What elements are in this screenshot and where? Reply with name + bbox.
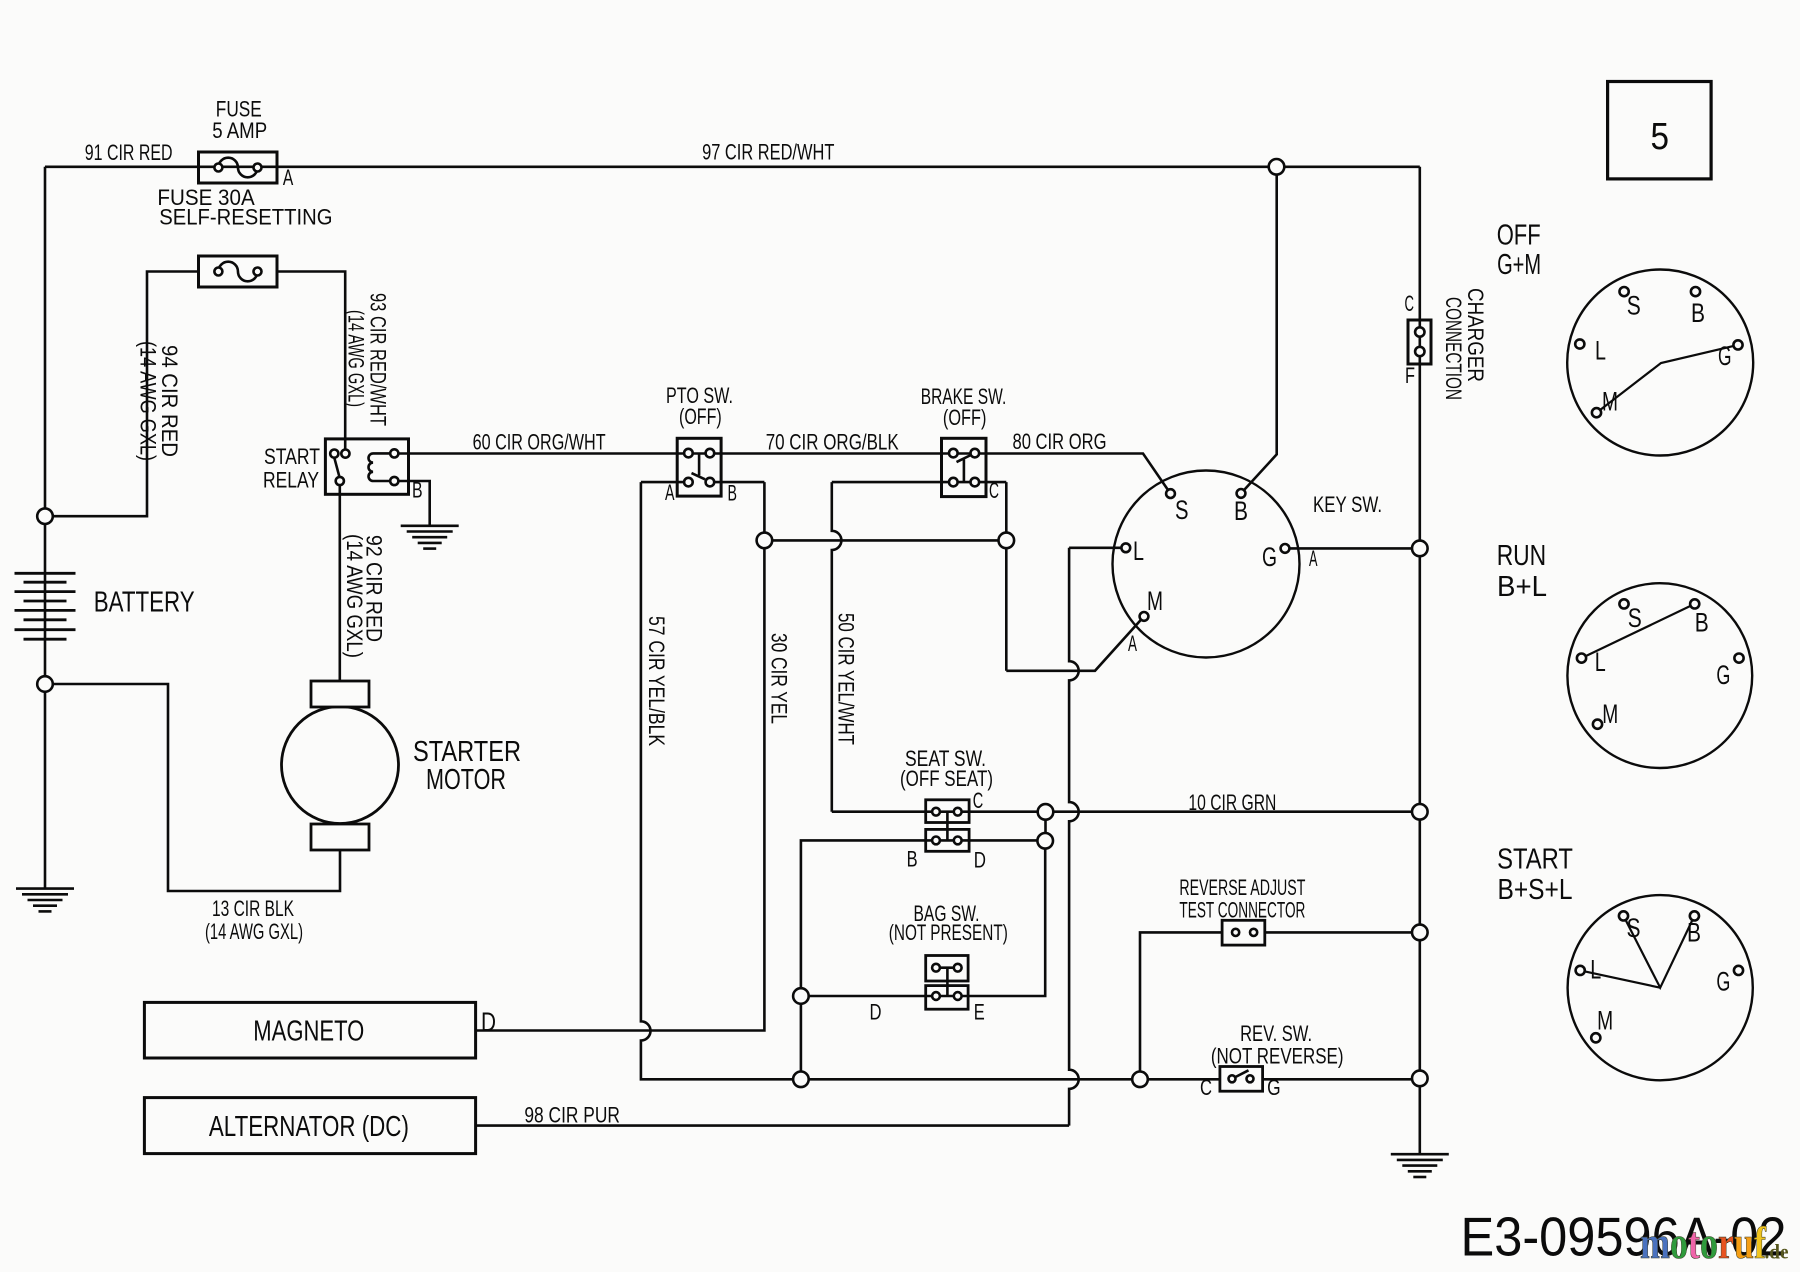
svg-text:L: L — [1133, 536, 1144, 566]
wire 50 CIR YEL/WHT with hop — [832, 482, 842, 812]
label BRAKE SW. (OFF) — [921, 384, 1007, 430]
label FUSE 5 AMP — [212, 97, 267, 143]
svg-text:30 CIR YEL: 30 CIR YEL — [767, 633, 792, 724]
label PTO A — [665, 480, 675, 505]
svg-text:C: C — [1200, 1075, 1212, 1100]
svg-text:G: G — [1716, 660, 1730, 690]
label ALTERNATOR (DC) — [209, 1111, 409, 1143]
node top rail to key B — [1269, 159, 1285, 175]
label START RELAY — [263, 444, 320, 493]
label 92 CIR RED (14 AWG GXL) — [342, 534, 387, 658]
label BATTERY — [94, 587, 195, 619]
node key G riser junction — [1412, 541, 1428, 557]
svg-text:C: C — [989, 478, 999, 503]
svg-text:MAGNETO: MAGNETO — [253, 1016, 364, 1048]
label KEY SW. — [1313, 492, 1382, 517]
label 98 CIR PUR — [524, 1103, 620, 1128]
start relay — [325, 439, 408, 494]
svg-text:B: B — [907, 846, 918, 871]
svg-text:S: S — [1628, 603, 1642, 633]
svg-text:ALTERNATOR (DC): ALTERNATOR (DC) — [209, 1111, 409, 1143]
brake switch — [942, 438, 987, 496]
svg-text:E: E — [974, 1000, 985, 1025]
label 57 CIR YEL/BLK — [644, 616, 669, 746]
label STARTER MOTOR — [413, 736, 521, 796]
label key A (G) — [1309, 546, 1318, 571]
svg-text:C: C — [973, 788, 984, 813]
wire reverse adjust connector right lead — [1265, 931, 1420, 934]
wire seat switch C lead — [832, 810, 1420, 813]
label seat C — [973, 788, 984, 813]
svg-text:91 CIR RED: 91 CIR RED — [85, 140, 173, 165]
svg-text:M: M — [1602, 699, 1618, 729]
svg-text:M: M — [1597, 1006, 1613, 1036]
label key A (M) — [1128, 631, 1137, 656]
svg-text:D: D — [481, 1007, 496, 1037]
svg-text:(NOT REVERSE): (NOT REVERSE) — [1211, 1044, 1344, 1069]
wire rev switch right lead — [1263, 1078, 1420, 1081]
label charger F — [1405, 363, 1415, 388]
node battery negative — [37, 676, 53, 692]
svg-text:A: A — [1309, 546, 1318, 571]
reverse adjust test connector — [1222, 920, 1265, 945]
label RUN B+L — [1497, 540, 1547, 603]
svg-text:G+M: G+M — [1497, 249, 1541, 281]
label 60 CIR ORG/WHT — [473, 429, 606, 454]
svg-text:RELAY: RELAY — [263, 468, 319, 493]
svg-text:A: A — [665, 480, 675, 505]
rev switch — [1220, 1067, 1263, 1092]
svg-text:60 CIR ORG/WHT: 60 CIR ORG/WHT — [473, 429, 606, 454]
svg-text:57 CIR YEL/BLK: 57 CIR YEL/BLK — [644, 616, 669, 746]
svg-text:B: B — [1691, 298, 1705, 328]
node brake C junction — [999, 533, 1015, 549]
seat switch — [926, 800, 969, 852]
magneto — [144, 1002, 475, 1058]
svg-text:B: B — [412, 478, 423, 503]
node seat D junction — [1037, 833, 1053, 849]
wire 30 CIR YEL cross-link — [764, 539, 1006, 542]
svg-text:D: D — [870, 1000, 882, 1025]
key position diagram RUN — [1567, 583, 1752, 768]
wire seat switch B lead — [801, 840, 936, 1079]
wire PTO B lead — [710, 481, 765, 484]
label magneto D terminal — [481, 1007, 496, 1037]
svg-text:.de: .de — [1765, 1240, 1789, 1264]
label key S — [1175, 495, 1189, 525]
svg-text:F: F — [1405, 363, 1415, 388]
label 30 CIR YEL — [767, 633, 792, 724]
svg-text:SELF-RESETTING: SELF-RESETTING — [159, 205, 332, 230]
label CHARGER CONNECTION — [1441, 288, 1488, 400]
label E3-09596A-02 — [1461, 1206, 1787, 1268]
wire key switch M lead — [1006, 616, 1144, 670]
wire 91 CIR RED / 97 CIR RED/WHT top rail — [45, 166, 1420, 169]
wire seat switch D lead — [958, 839, 1045, 842]
battery — [15, 573, 76, 639]
svg-text:REV. SW.: REV. SW. — [1240, 1021, 1312, 1046]
wire brake C drop — [1005, 482, 1008, 671]
svg-text:G: G — [1718, 341, 1732, 371]
label brake C terminal — [989, 478, 999, 503]
svg-text:A: A — [283, 165, 294, 190]
wire key switch L lead — [1069, 546, 1126, 549]
svg-text:B: B — [1695, 608, 1709, 638]
label 93 CIR RED/WHT (14 AWG GXL) — [344, 293, 391, 426]
label key M — [1147, 586, 1163, 616]
node rev wire left junction — [793, 1072, 809, 1088]
label 13 CIR BLK (14 AWG GXL) — [205, 896, 303, 944]
wire key switch G to riser — [1285, 547, 1420, 550]
svg-text:L: L — [1595, 336, 1606, 366]
wire PTO A lead — [641, 481, 689, 484]
fuse 5 AMP — [199, 152, 278, 183]
label charger C — [1405, 291, 1415, 316]
wire 30 CIR YEL — [476, 482, 765, 1030]
label FUSE 30A SELF-RESETTING — [157, 185, 332, 229]
svg-text:B: B — [728, 481, 738, 506]
svg-text:50 CIR YEL/WHT: 50 CIR YEL/WHT — [834, 613, 859, 745]
svg-text:10 CIR GRN: 10 CIR GRN — [1188, 790, 1276, 815]
wire 98 CIR PUR alternator lead — [476, 1124, 1070, 1127]
svg-text:TEST CONNECTOR: TEST CONNECTOR — [1179, 898, 1305, 923]
alternator — [144, 1098, 475, 1154]
PTO switch — [677, 438, 721, 496]
svg-text:CONNECTION: CONNECTION — [1441, 297, 1466, 400]
label fuse A terminal — [283, 165, 294, 190]
label relay B terminal — [412, 478, 423, 503]
label bag E — [974, 1000, 985, 1025]
svg-text:MOTOR: MOTOR — [426, 764, 506, 796]
wire key switch B riser — [1241, 167, 1277, 494]
wire charger connection riser (right vertical) — [1419, 167, 1422, 1154]
label 50 CIR YEL/WHT — [834, 613, 859, 745]
label PTO B — [728, 481, 738, 506]
label BAG SW. (NOT PRESENT) — [889, 901, 1008, 945]
svg-text:97 CIR RED/WHT: 97 CIR RED/WHT — [702, 140, 834, 165]
wire 60/70/80 CIR ORG bus — [394, 454, 1170, 494]
svg-text:S: S — [1175, 495, 1189, 525]
svg-text:G: G — [1716, 967, 1730, 997]
wire 93 CIR RED/WHT fuse 30A to start relay — [277, 272, 345, 454]
wire 13 CIR BLK — [45, 684, 340, 891]
svg-text:M: M — [1602, 387, 1618, 417]
node reverse adjust riser junction — [1412, 925, 1428, 941]
label seat D — [974, 848, 986, 873]
svg-text:S: S — [1627, 290, 1641, 320]
watermark motoruf.de — [1640, 1217, 1789, 1268]
svg-text:L: L — [1595, 647, 1606, 677]
svg-text:L: L — [1590, 955, 1601, 985]
ground bottom right — [1391, 1154, 1449, 1177]
svg-text:(NOT PRESENT): (NOT PRESENT) — [889, 920, 1008, 945]
label key L — [1133, 536, 1144, 566]
svg-text:(14 AWG GXL): (14 AWG GXL) — [344, 310, 369, 407]
fuse 30A self-resetting — [199, 256, 278, 287]
label 91 CIR RED — [85, 140, 173, 165]
svg-text:C: C — [1405, 291, 1415, 316]
label key B — [1234, 496, 1248, 526]
wire 98 CIR PUR riser with hops — [1069, 548, 1079, 1126]
svg-text:START: START — [264, 444, 320, 469]
svg-text:S: S — [1627, 913, 1641, 943]
bag switch — [926, 956, 968, 1010]
svg-text:REVERSE ADJUST: REVERSE ADJUST — [1179, 875, 1305, 900]
svg-text:D: D — [974, 848, 986, 873]
wire 57 CIR YEL/BLK with hop — [641, 482, 1220, 1079]
svg-text:BATTERY: BATTERY — [94, 587, 195, 619]
svg-text:KEY SW.: KEY SW. — [1313, 492, 1382, 517]
svg-text:B+S+L: B+S+L — [1498, 874, 1573, 906]
label MAGNETO — [253, 1016, 364, 1048]
label key G — [1262, 542, 1277, 572]
node battery positive — [37, 508, 53, 524]
svg-text:G: G — [1262, 542, 1277, 572]
label START B+S+L — [1497, 844, 1573, 907]
svg-text:(14 AWG GXL): (14 AWG GXL) — [205, 919, 303, 944]
label OFF G+M — [1497, 220, 1541, 282]
node 30 CIR YEL junction — [757, 533, 773, 549]
svg-text:RUN: RUN — [1497, 540, 1547, 572]
wire relay coil to ground — [394, 481, 429, 526]
label REVERSE ADJUST TEST CONNECTOR — [1179, 875, 1305, 923]
wire brake switch bottom through-lead — [832, 481, 1007, 484]
wire 92 CIR RED relay to starter motor — [338, 481, 341, 681]
label 10 CIR GRN — [1188, 790, 1276, 815]
wire 94 CIR RED fuse 30A left leg — [45, 272, 199, 517]
wire battery positive rail (left vertical) — [44, 167, 47, 889]
wire bag switch E loop — [801, 841, 1045, 996]
svg-text:5 AMP: 5 AMP — [212, 118, 267, 143]
node seat C junction — [1038, 804, 1054, 820]
svg-text:START: START — [1497, 844, 1573, 876]
ground near start relay — [401, 526, 459, 549]
label PTO SW. (OFF) — [666, 383, 733, 429]
label 70 CIR ORG/BLK — [766, 429, 899, 454]
svg-text:(OFF): (OFF) — [679, 404, 722, 429]
label bag D — [870, 1000, 882, 1025]
svg-text:98 CIR PUR: 98 CIR PUR — [524, 1103, 620, 1128]
wire reverse adjust connector left lead — [1140, 932, 1222, 1079]
svg-text:(14 AWG GXL): (14 AWG GXL) — [342, 534, 367, 658]
ground below battery — [16, 889, 74, 912]
label rev G — [1267, 1075, 1281, 1100]
node rev wire mid junction — [1132, 1072, 1148, 1088]
svg-text:13 CIR BLK: 13 CIR BLK — [212, 896, 294, 921]
svg-text:OFF: OFF — [1497, 220, 1541, 252]
svg-text:5: 5 — [1651, 116, 1670, 158]
node rev switch riser junction — [1412, 1071, 1428, 1087]
svg-text:80 CIR ORG: 80 CIR ORG — [1013, 429, 1107, 454]
label REV. SW. (NOT REVERSE) — [1211, 1021, 1344, 1069]
node bag D junction — [793, 988, 809, 1004]
key switch — [1113, 471, 1300, 658]
charger connection — [1408, 320, 1431, 364]
key position diagram START — [1568, 895, 1753, 1080]
wire junction link — [1044, 812, 1047, 841]
label 94 CIR RED (14 AWG GXL) — [136, 341, 183, 461]
svg-text:G: G — [1267, 1075, 1281, 1100]
svg-text:70 CIR ORG/BLK: 70 CIR ORG/BLK — [766, 429, 899, 454]
svg-text:B+L: B+L — [1497, 571, 1547, 603]
svg-text:M: M — [1147, 586, 1163, 616]
page number 5 box — [1608, 82, 1712, 179]
node 10 CIR GRN riser junction — [1412, 804, 1428, 820]
label SEAT SW. (OFF SEAT) — [900, 746, 993, 791]
svg-text:(14 AWG GXL): (14 AWG GXL) — [136, 341, 161, 461]
svg-text:motoruf: motoruf — [1640, 1217, 1767, 1268]
starter motor — [282, 681, 399, 850]
label seat B — [907, 846, 918, 871]
svg-text:B: B — [1234, 496, 1248, 526]
label 97 CIR RED/WHT — [702, 140, 834, 165]
svg-text:(OFF): (OFF) — [943, 405, 987, 430]
svg-text:A: A — [1128, 631, 1137, 656]
key position diagram OFF — [1567, 270, 1753, 456]
label 80 CIR ORG — [1013, 429, 1107, 454]
label rev C — [1200, 1075, 1212, 1100]
svg-text:B: B — [1687, 917, 1701, 947]
